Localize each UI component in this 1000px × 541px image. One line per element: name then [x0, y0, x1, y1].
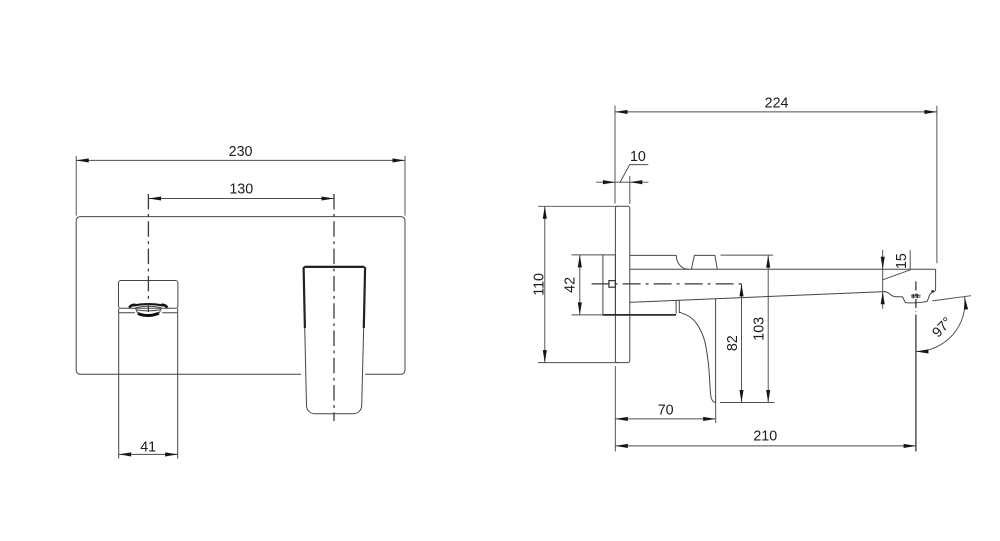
70/210 left extension line: [614, 366, 616, 452]
aerator collar thick arc: [133, 304, 164, 306]
70 right extension line: [715, 402, 717, 423]
42 dimension line: [579, 255, 581, 315]
svg-text:10: 10: [630, 149, 646, 165]
aerator inner rim: [136, 306, 161, 307]
110 extension lines: [538, 206, 619, 362]
front aerator: [129, 304, 167, 316]
spout right edge: [934, 269, 936, 292]
svg-text:224: 224: [765, 96, 789, 112]
body top edge: [630, 254, 677, 256]
tip corner mark: [931, 290, 933, 293]
wall plate side: [615, 206, 629, 362]
svg-text:82: 82: [725, 335, 741, 351]
front center lines: [148, 194, 334, 421]
224 dimension line: [615, 111, 937, 113]
front dimensions: [76, 156, 405, 454]
15 lower arrow: [882, 292, 884, 309]
spout underside and aerator cup: [630, 292, 934, 303]
handle centerline: [333, 194, 335, 421]
41 dimension line: [119, 453, 178, 455]
15 dimension line across spout: [882, 269, 884, 292]
spout side lines / 41 extension lines: [119, 313, 178, 459]
handle front: [303, 266, 365, 413]
handle lever side: [682, 299, 716, 403]
cartridge cap trapezoid: [691, 255, 717, 269]
cartridge dome arc: [676, 255, 688, 269]
side center lines: [592, 282, 916, 452]
82 dimension line: [741, 284, 743, 403]
82/103 bottom extension line: [720, 402, 775, 404]
in-wall body: [603, 255, 616, 315]
svg-text:110: 110: [532, 273, 548, 296]
210 dimension line: [615, 445, 916, 447]
svg-text:230: 230: [229, 144, 253, 160]
svg-text:15: 15: [894, 253, 910, 269]
110 dimension line: [544, 206, 546, 362]
svg-text:130: 130: [229, 182, 253, 198]
42 extension lines: [572, 255, 604, 315]
10 leader: [620, 165, 648, 182]
103 dimension line: [767, 255, 769, 402]
outlet drop extension line: [915, 315, 917, 452]
wall plate front: [76, 217, 405, 375]
outlet centerline: [915, 282, 917, 312]
224 extension lines: [615, 106, 937, 264]
15 upper arrow: [882, 250, 884, 269]
svg-text:103: 103: [752, 317, 768, 341]
svg-text:70: 70: [658, 402, 674, 418]
handle neck: [676, 300, 681, 313]
spout front face box: [119, 281, 178, 309]
aerator hatch detail: [911, 295, 921, 297]
aerator cup bottom thick arc: [138, 313, 159, 315]
handle front thick upper edges: [304, 267, 366, 328]
10 extension stub: [629, 176, 631, 204]
horizontal axis centerline: [592, 283, 746, 285]
10 dimension arrows: [596, 181, 615, 183]
70 dimension line: [615, 418, 715, 420]
230 extension lines: [76, 156, 405, 216]
230 dimension line: [76, 159, 405, 161]
97 angle reference line: [932, 296, 971, 301]
103 top extension line: [721, 254, 774, 256]
svg-text:42: 42: [562, 277, 578, 293]
spout lower band seam: [119, 308, 178, 313]
svg-text:41: 41: [140, 439, 156, 455]
svg-text:210: 210: [753, 429, 777, 445]
small square fitting on plate: [609, 281, 616, 288]
15 leader: [883, 250, 911, 280]
svg-text:97°: 97°: [929, 314, 956, 341]
spout top edge: [630, 268, 936, 270]
side dimensions: [538, 106, 971, 452]
spout centerline: [147, 194, 149, 312]
aerator cup: [135, 308, 161, 314]
body bottom edge: [603, 314, 676, 316]
97 angle arc: [916, 297, 965, 352]
130 dimension line: [149, 198, 334, 200]
